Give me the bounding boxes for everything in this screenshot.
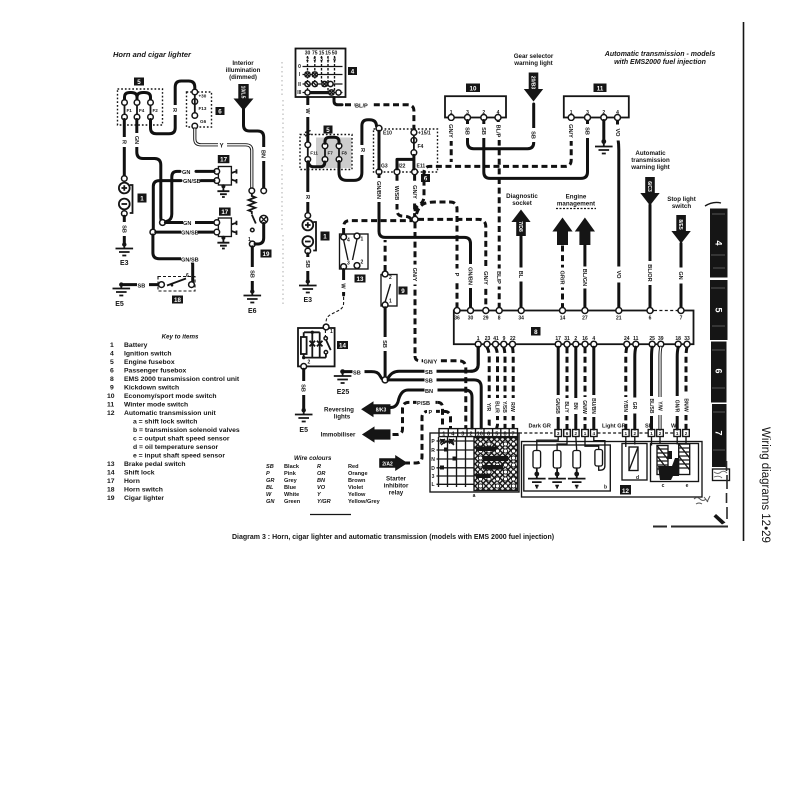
svg-text:Automatic transmission unit: Automatic transmission unit <box>124 410 217 417</box>
svg-text:L: L <box>431 482 434 488</box>
label 18 <box>172 296 183 304</box>
svg-text:GN/Y: GN/Y <box>411 185 417 199</box>
svg-text:E25: E25 <box>337 389 350 396</box>
black bars in hatch <box>476 447 496 452</box>
svg-text:50: 50 <box>332 51 338 57</box>
small box below strip <box>713 469 730 481</box>
switch lever <box>252 215 256 224</box>
svg-text:Ignition switch: Ignition switch <box>124 351 172 358</box>
svg-text:3: 3 <box>347 261 350 267</box>
wire BL/P box10 pin4 dashed to ECU pin8 <box>498 121 499 309</box>
svg-text:30: 30 <box>305 51 311 57</box>
oil temperature sensor d box <box>622 444 647 481</box>
svg-text:BN: BN <box>317 478 326 484</box>
svg-text:8: 8 <box>498 316 501 322</box>
svg-text:Immobiliser: Immobiliser <box>321 432 356 439</box>
svg-text:BL/R: BL/R <box>494 401 500 413</box>
wire SB kickdown to junction <box>384 308 387 377</box>
svg-text:Economy/sport mode switch: Economy/sport mode switch <box>124 393 217 400</box>
svg-text:BL/Y: BL/Y <box>563 401 569 413</box>
svg-text:Automatic transmission - model: Automatic transmission - models <box>604 51 716 58</box>
node +15/1 <box>411 130 417 136</box>
svg-text:13: 13 <box>107 461 115 468</box>
wire BL diagnostic to ECU pin34 <box>520 237 523 309</box>
wire BL/GN solid to ECU pin27 <box>583 246 586 309</box>
arrow engine management 1 <box>552 218 572 246</box>
svg-text:SB: SB <box>425 370 433 376</box>
handwriting marks bottom right <box>694 496 710 504</box>
svg-text:17: 17 <box>221 209 228 216</box>
svg-text:inhibitor: inhibitor <box>384 483 409 490</box>
svg-text:illumination: illumination <box>226 67 261 74</box>
solenoid valves box b <box>524 445 611 491</box>
svg-text:Y/BN: Y/BN <box>622 400 628 412</box>
svg-text:17: 17 <box>220 157 227 164</box>
svg-text:5: 5 <box>714 307 724 312</box>
light GR connector squares <box>623 430 639 437</box>
wire BN pin2 <box>574 347 577 429</box>
svg-text:GN/SB: GN/SB <box>181 231 199 237</box>
junction J1 <box>160 220 166 226</box>
svg-text:7: 7 <box>714 430 724 435</box>
svg-text:socket: socket <box>512 200 532 207</box>
svg-text:1: 1 <box>625 431 628 436</box>
svg-text:E3: E3 <box>304 297 313 304</box>
W connector squares <box>674 430 689 437</box>
selector switch a box <box>430 433 519 492</box>
svg-text:10: 10 <box>477 431 483 437</box>
ground E5 (mid) <box>302 408 306 412</box>
svg-text:SB: SB <box>138 283 146 289</box>
label 14 <box>337 341 348 349</box>
svg-text:7: 7 <box>511 431 514 437</box>
svg-text:Starter: Starter <box>386 476 407 483</box>
svg-text:4: 4 <box>593 431 596 436</box>
svg-text:16: 16 <box>582 336 588 342</box>
svg-text:P/SB: P/SB <box>417 401 430 407</box>
wire GN/Y box10 pin1 dashed <box>450 121 453 163</box>
svg-text:31: 31 <box>564 336 570 342</box>
svg-text:BN: BN <box>425 389 433 395</box>
svg-text:Engine fusebox: Engine fusebox <box>124 359 175 366</box>
svg-text:GN: GN <box>133 136 139 144</box>
svg-text:W: W <box>340 283 346 289</box>
svg-text:+15/1: +15/1 <box>418 131 431 137</box>
svg-text:11: 11 <box>107 402 114 409</box>
svg-text:Yellow: Yellow <box>348 492 366 498</box>
svg-text:1: 1 <box>323 234 327 241</box>
svg-text:1: 1 <box>676 431 679 436</box>
label 5 <box>324 126 333 134</box>
svg-text:4: 4 <box>714 240 724 245</box>
svg-text:Battery: Battery <box>124 342 148 349</box>
svg-text:GN/Y: GN/Y <box>411 268 417 282</box>
svg-text:E5: E5 <box>115 301 124 308</box>
svg-text:Gear selector: Gear selector <box>514 53 554 60</box>
svg-text:4: 4 <box>110 351 114 358</box>
svg-text:relay: relay <box>389 490 404 497</box>
svg-text:6: 6 <box>110 368 114 375</box>
svg-text:BL/P: BL/P <box>495 271 501 284</box>
wire R/W dashed pin22 <box>511 347 515 429</box>
fuse F11 <box>305 142 311 148</box>
svg-text:7/D8: 7/D8 <box>517 221 523 232</box>
svg-text:GN/SB: GN/SB <box>554 398 560 414</box>
svg-text:14: 14 <box>339 343 346 350</box>
ground E3 (left) <box>122 242 126 246</box>
svg-text:33: 33 <box>684 336 690 342</box>
connector photo strip 5 <box>710 280 728 340</box>
svg-text:14: 14 <box>107 470 115 477</box>
svg-text:30: 30 <box>468 316 474 322</box>
label BN <box>259 147 268 161</box>
svg-text:GN: GN <box>677 271 683 279</box>
svg-text:W: W <box>671 424 677 430</box>
svg-text:EMS 2000 transmission control: EMS 2000 transmission control unit <box>124 376 240 383</box>
solenoid 2 <box>557 437 567 451</box>
svg-text:5: 5 <box>110 359 114 366</box>
label 5 <box>134 78 144 86</box>
ignition switch 4 <box>296 49 346 98</box>
shift lock 14 <box>298 328 335 366</box>
arrows into pins 1,4 <box>441 439 453 442</box>
svg-text:W: W <box>266 492 272 498</box>
svg-text:BL/P: BL/P <box>495 125 501 138</box>
fuse F1 <box>122 100 128 106</box>
svg-text:VO: VO <box>317 485 326 491</box>
svg-text:warning light: warning light <box>513 60 553 67</box>
svg-text:F4: F4 <box>139 108 145 113</box>
svg-text:2: 2 <box>659 431 662 436</box>
label 13 <box>355 275 366 283</box>
svg-text:Engine: Engine <box>566 194 587 201</box>
svg-text:1: 1 <box>650 431 653 436</box>
svg-text:switch: switch <box>672 203 691 210</box>
wire R F8 to E10 <box>339 120 377 181</box>
svg-text:15: 15 <box>319 51 325 57</box>
svg-text:III: III <box>297 90 302 96</box>
svg-text:6: 6 <box>714 368 724 373</box>
engine fusebox 5 (mid) <box>316 138 352 169</box>
svg-text:R: R <box>171 108 177 112</box>
wire SB shift lock to ground E5 <box>302 369 305 408</box>
fuse F4 (mid) <box>411 138 417 144</box>
svg-text:BL: BL <box>517 271 523 279</box>
page border line <box>743 22 745 541</box>
svg-text:R: R <box>431 448 435 454</box>
wire GN/R pin18 to W conn <box>677 347 678 429</box>
wire W/SB dashed I22 down <box>397 175 411 219</box>
selector connector squares <box>439 429 518 437</box>
svg-text:P: P <box>453 273 459 277</box>
svg-text:2: 2 <box>389 275 392 281</box>
svg-text:BL/GN: BL/GN <box>581 269 587 286</box>
svg-text:75: 75 <box>312 51 318 57</box>
horn switch 18 <box>158 277 195 292</box>
node G3 <box>376 169 382 175</box>
svg-text:Shift lock: Shift lock <box>124 470 155 477</box>
lamp <box>260 215 268 223</box>
wire P/SB to selector pin 1 <box>438 402 443 428</box>
arrow 2/A2 starter inhibitor relay <box>379 455 407 471</box>
wire GN/SB pin17 to dark GR 3 <box>557 347 560 429</box>
wire BL/R dashed pin41 <box>496 347 498 429</box>
svg-text:5: 5 <box>326 127 330 134</box>
key list <box>107 342 240 502</box>
svg-text:11: 11 <box>597 86 604 93</box>
svg-text:GN: GN <box>183 221 191 227</box>
svg-text:GR: GR <box>266 478 274 484</box>
label R <box>120 137 129 147</box>
svg-text:5: 5 <box>495 431 498 437</box>
svg-text:9: 9 <box>110 385 114 392</box>
solenoid 4 <box>585 437 605 471</box>
battery 1 (mid) <box>305 213 311 219</box>
svg-text:Automatic: Automatic <box>635 150 666 157</box>
svg-text:R/W: R/W <box>509 402 515 412</box>
svg-text:Stop light: Stop light <box>667 196 696 203</box>
fuse F13 <box>192 99 198 105</box>
ground E5 (left) <box>119 282 123 286</box>
svg-text:N: N <box>431 457 435 463</box>
wire Y/W pin39 <box>658 347 662 429</box>
svg-text:1: 1 <box>330 329 333 335</box>
svg-text:with EMS2000 fuel injection: with EMS2000 fuel injection <box>614 59 706 66</box>
svg-text:Key to items: Key to items <box>162 334 199 341</box>
fuse F8 <box>336 143 342 149</box>
svg-text:41: 41 <box>493 336 499 342</box>
svg-text:SB: SB <box>480 127 486 135</box>
arrow 20/B3 gear selector warning <box>524 73 543 102</box>
junction J2 <box>150 229 156 235</box>
svg-text:3: 3 <box>461 431 464 437</box>
svg-text:2/A2: 2/A2 <box>382 461 393 467</box>
label GN <box>132 133 141 147</box>
svg-text:10: 10 <box>107 393 115 400</box>
wire GN/SB to horn lower <box>156 231 213 234</box>
svg-text:8: 8 <box>503 431 506 437</box>
wire GN/Y junction up to E11 <box>413 175 416 216</box>
wire VO box11 pin4 <box>616 121 619 140</box>
wire hook F7 bottom <box>308 162 325 167</box>
wire W from 13 pin3 to shift lock <box>342 270 345 296</box>
svg-text:F11: F11 <box>310 151 318 156</box>
svg-text:W/SB: W/SB <box>393 186 399 201</box>
wire GN/Y box11 pin1 dashed long run <box>415 121 571 218</box>
svg-text:4: 4 <box>592 336 595 342</box>
wire GN/Y junction right to ECU pin29 <box>418 219 486 308</box>
svg-text:3: 3 <box>432 474 435 480</box>
fuse F4 <box>134 100 140 106</box>
svg-text:14: 14 <box>560 316 566 322</box>
svg-text:9: 9 <box>503 336 506 342</box>
svg-text:R: R <box>359 148 365 152</box>
svg-text:SB: SB <box>425 379 433 385</box>
node E10 <box>376 125 382 131</box>
svg-text:I22: I22 <box>399 164 406 170</box>
wire GN/SB to horn upper <box>201 179 214 182</box>
wire SB gear selector <box>529 128 538 142</box>
svg-text:F13: F13 <box>199 106 207 111</box>
wire GN stop light to ECU pin7 <box>680 244 683 309</box>
svg-text:E11: E11 <box>417 164 426 170</box>
svg-text:d: d <box>636 475 639 481</box>
winter mode switch 11 <box>564 96 629 117</box>
svg-text:GN/SB: GN/SB <box>181 257 199 263</box>
wire SB cigar to ground <box>251 247 254 290</box>
svg-text:BN: BN <box>260 150 266 158</box>
arrow 6/C3 warning light <box>640 177 659 206</box>
label 19 <box>261 250 272 258</box>
svg-text:F8: F8 <box>342 151 348 156</box>
economy/sport mode switch 10 <box>445 96 506 117</box>
wire GN/SB from J2 to horn switch <box>153 235 193 282</box>
svg-text:SB: SB <box>248 270 254 278</box>
svg-text:BN: BN <box>572 402 578 410</box>
svg-text:10/L5: 10/L5 <box>240 86 246 99</box>
svg-text:Y/W: Y/W <box>656 401 662 411</box>
svg-text:27: 27 <box>582 316 588 322</box>
svg-text:e: e <box>686 483 689 489</box>
svg-text:c = output shaft speed sensor: c = output shaft speed sensor <box>133 436 230 443</box>
svg-text:GN/Y: GN/Y <box>482 271 488 285</box>
cigar lighter 19 <box>249 188 255 194</box>
label 1 <box>321 232 330 241</box>
svg-text:2: 2 <box>685 431 688 436</box>
hatched block <box>474 438 518 491</box>
svg-text:15: 15 <box>325 51 331 57</box>
svg-text:18: 18 <box>107 487 115 494</box>
svg-text:Violet: Violet <box>348 485 363 491</box>
arrow immobiliser <box>362 426 391 442</box>
kickdown switch 9 <box>381 275 397 307</box>
svg-text:6/C3: 6/C3 <box>646 181 652 192</box>
svg-text:Horn: Horn <box>124 478 140 485</box>
wire BL/SB pin25 to SB conn <box>650 347 654 429</box>
svg-text:7: 7 <box>680 316 683 322</box>
svg-text:Pink: Pink <box>284 471 297 477</box>
wire BN from reversing arrow to selector <box>391 390 473 428</box>
svg-text:GN: GN <box>182 170 190 176</box>
svg-text:G3: G3 <box>381 164 388 170</box>
svg-text:39: 39 <box>658 336 664 342</box>
arrow engine management 2 <box>575 218 595 246</box>
svg-text:Y/R: Y/R <box>485 403 491 412</box>
photo strip lower boundary lines <box>726 461 729 519</box>
svg-text:2: 2 <box>308 360 311 366</box>
battery 1 (left) <box>122 176 128 182</box>
svg-text:BN/W: BN/W <box>682 398 688 412</box>
svg-text:Diagram 3 : Horn, cigar lighte: Diagram 3 : Horn, cigar lighter and auto… <box>232 534 554 541</box>
svg-text:2: 2 <box>634 431 637 436</box>
svg-text:G6: G6 <box>200 119 207 124</box>
label 8 <box>531 327 541 336</box>
svg-text:24: 24 <box>624 336 630 342</box>
junction SB bus <box>382 377 388 383</box>
svg-text:F2: F2 <box>153 108 159 113</box>
svg-text:GN/Y: GN/Y <box>424 360 438 366</box>
svg-text:F7: F7 <box>328 151 334 156</box>
wire SB bus upper to ECU <box>388 347 478 378</box>
svg-text:SB: SB <box>381 340 387 348</box>
automatic transmission unit 12 outer box <box>522 442 703 498</box>
label 12 <box>620 485 631 495</box>
svg-text:warning light: warning light <box>630 164 670 171</box>
horn 17 upper <box>218 155 230 163</box>
junction GN/Y <box>412 216 418 222</box>
wire P dashed <box>404 411 451 463</box>
wire arch F7-F8 <box>325 137 339 143</box>
SB connector squares <box>648 430 663 437</box>
svg-text:5: 5 <box>137 79 141 86</box>
wire SB pin1 left to junction <box>471 347 478 371</box>
svg-text:b: b <box>604 485 607 491</box>
arrow 8/K3 reversing lights <box>361 401 390 417</box>
wire arch F4-F2 <box>137 93 151 101</box>
svg-text:Winter mode switch: Winter mode switch <box>124 402 188 409</box>
wire SB ground to horn switch <box>124 283 159 286</box>
wire BN from arrow to cigar lighter <box>244 110 264 189</box>
svg-text:12: 12 <box>107 410 115 417</box>
svg-text:management: management <box>557 201 595 208</box>
svg-text:SB: SB <box>584 127 590 135</box>
svg-text:Blue: Blue <box>284 485 296 491</box>
svg-text:GN/Y: GN/Y <box>447 124 453 138</box>
svg-text:a: a <box>473 493 476 499</box>
wire Y/R dashed pin23 <box>487 347 489 429</box>
fusebox 5 (engine fusebox, left) <box>118 89 163 125</box>
svg-text:11: 11 <box>633 336 639 342</box>
black blob between sensors <box>658 458 679 480</box>
connector photo strip 4 <box>705 202 721 206</box>
svg-text:GN/SB: GN/SB <box>183 179 201 185</box>
passenger fusebox 6 (left) <box>187 92 212 127</box>
node I22 <box>394 169 400 175</box>
svg-text:E3: E3 <box>120 260 129 267</box>
wire F4 to E11 and I22 <box>397 155 414 169</box>
svg-text:Kickdown switch: Kickdown switch <box>124 385 179 392</box>
wire dashed 13 pin4 to GN-Y junction run <box>344 221 412 234</box>
wire GN/W dashed pin16 <box>584 347 587 429</box>
solenoid 3 <box>575 437 578 451</box>
wire Y hollow from G6 to cigar lighter <box>195 129 252 188</box>
svg-text:Brown: Brown <box>348 478 366 484</box>
svg-text:transmission: transmission <box>631 157 670 164</box>
wire SB battery to ground <box>123 216 126 243</box>
svg-text:19: 19 <box>107 495 115 502</box>
ground under horn lower <box>221 236 225 240</box>
svg-text:1: 1 <box>389 299 392 305</box>
svg-text:34: 34 <box>518 316 524 322</box>
svg-text:E10: E10 <box>383 131 392 137</box>
svg-text:GR: GR <box>631 402 637 410</box>
svg-text:d = oil temperature sensor: d = oil temperature sensor <box>133 444 219 451</box>
svg-text:BL/P: BL/P <box>355 104 368 110</box>
svg-text:Horn and cigar lighter: Horn and cigar lighter <box>113 50 192 59</box>
label Y <box>218 140 227 150</box>
svg-text:Wiring diagrams 12•29: Wiring diagrams 12•29 <box>759 427 771 543</box>
svg-text:Yellow/Grey: Yellow/Grey <box>348 499 381 505</box>
svg-text:SB: SB <box>464 127 470 135</box>
ground E6 <box>250 289 254 293</box>
svg-text:6: 6 <box>649 316 652 322</box>
svg-text:GN/W: GN/W <box>581 400 587 414</box>
svg-text:R: R <box>317 464 321 470</box>
ground E25 <box>340 369 345 374</box>
svg-text:Light GR: Light GR <box>602 424 626 430</box>
svg-text:1: 1 <box>477 336 480 342</box>
svg-text:GN/R: GN/R <box>674 400 680 413</box>
